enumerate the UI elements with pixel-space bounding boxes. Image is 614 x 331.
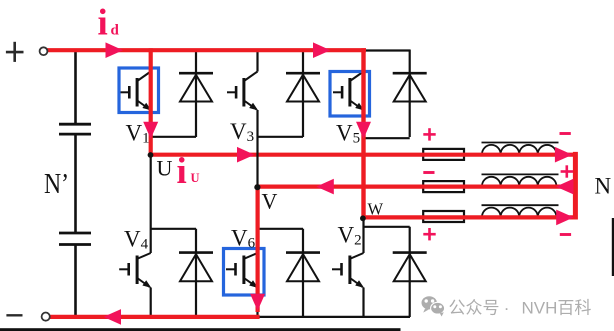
wire red V6 leg vertical <box>256 185 260 312</box>
transistor V3 IGBT upper V-phase <box>227 49 258 138</box>
negative input terminal circle <box>42 313 50 321</box>
wire top DC bus rail <box>76 49 411 51</box>
highlight box around V6 <box>224 249 265 296</box>
minus polarity V-phase fuse <box>423 171 434 174</box>
minus sign at negative terminal <box>6 314 22 316</box>
svg-text:V: V <box>262 188 278 213</box>
wire red W-phase output line <box>362 215 578 219</box>
wire red neutral bus vertical at N <box>573 152 578 220</box>
arrow into N on U-phase line <box>555 147 573 163</box>
highlight box around V1 <box>119 68 159 113</box>
arrow id current on positive rail <box>106 42 124 58</box>
wire red V5-W leg vertical <box>361 48 365 219</box>
wire V-phase lower collector-diode link <box>258 228 304 230</box>
fuse FU3 W-phase <box>423 211 464 222</box>
wire red negative DC rail <box>48 315 260 319</box>
transistor V5 IGBT upper W-phase <box>333 49 364 139</box>
arrow down through V5 <box>356 122 371 139</box>
plus polarity V-phase winding <box>561 170 573 173</box>
watermark wechat icon <box>422 296 445 316</box>
diode D6 freewheel of V6 <box>286 229 320 317</box>
transistor V2 IGBT lower W-phase <box>332 219 364 317</box>
wire red V1 leg vertical <box>149 48 153 156</box>
arrow leftward on V-phase line near V <box>316 179 334 195</box>
arrow down through V1 <box>143 122 158 139</box>
arrow down through V6 <box>250 294 265 311</box>
fuse FU1 U-phase <box>423 149 464 160</box>
fuse FU2 V-phase <box>423 181 464 192</box>
wire V3 emitter to node V (crosses over red) <box>256 138 258 186</box>
wire red U-phase output line <box>149 153 578 157</box>
svg-text:W: W <box>368 200 384 219</box>
highlight box around V5 <box>330 72 370 117</box>
transistor V6 IGBT lower V-phase <box>226 187 258 317</box>
arrow leftward on negative rail <box>104 309 122 325</box>
wire W-phase lower collector-diode link <box>364 226 410 228</box>
diode D3 freewheel of V3 <box>286 50 320 138</box>
arrow leftward on V-phase line near N <box>556 179 574 195</box>
plus sign at positive terminal <box>6 51 24 54</box>
minus polarity U-phase winding <box>560 132 571 135</box>
node W junction dot <box>360 215 366 221</box>
wire W-phase upper emitter-diode link <box>364 137 410 139</box>
transistor V4 IGBT lower U-phase <box>119 155 151 317</box>
minus polarity W-phase winding <box>560 233 571 236</box>
wire red positive DC rail <box>46 48 367 52</box>
arrow iU on U-phase line <box>237 147 255 163</box>
right border line <box>612 218 614 276</box>
wire bottom DC bus rail <box>76 316 411 318</box>
svg-text:N: N <box>595 174 612 199</box>
arrow on positive rail toward V5 <box>313 42 331 58</box>
wire V-phase upper emitter-diode link <box>258 136 304 138</box>
svg-text:N’: N’ <box>44 167 69 200</box>
inductor L1 U-phase winding <box>482 143 559 155</box>
diode D1 freewheel of V1 <box>179 50 213 138</box>
diode D2 freewheel of V2 <box>393 227 427 317</box>
positive input terminal circle <box>40 47 48 55</box>
svg-text:U: U <box>157 155 173 180</box>
node V junction dot <box>254 184 260 190</box>
arrow into N on W-phase line <box>556 210 574 226</box>
capacitor C1 upper DC-link <box>59 123 91 126</box>
inductor L3 W-phase winding <box>482 205 559 217</box>
wire U-phase upper emitter-diode link <box>151 136 196 138</box>
plus polarity U-phase fuse <box>423 133 435 136</box>
inductor L2 V-phase winding <box>482 174 559 186</box>
diode D5 freewheel of V5 <box>393 50 427 138</box>
wire red V-phase return line <box>256 185 578 189</box>
diode D4 freewheel of V4 <box>179 229 213 317</box>
capacitor C2 lower DC-link <box>59 232 91 235</box>
plus polarity W-phase fuse <box>423 233 435 236</box>
bottom border bar <box>0 328 401 331</box>
transistor V1 IGBT upper U-phase <box>120 49 151 156</box>
wire DC-link capacitor branch <box>74 50 77 124</box>
wire U-phase lower collector-diode link <box>151 228 196 230</box>
node U junction dot <box>148 152 154 158</box>
